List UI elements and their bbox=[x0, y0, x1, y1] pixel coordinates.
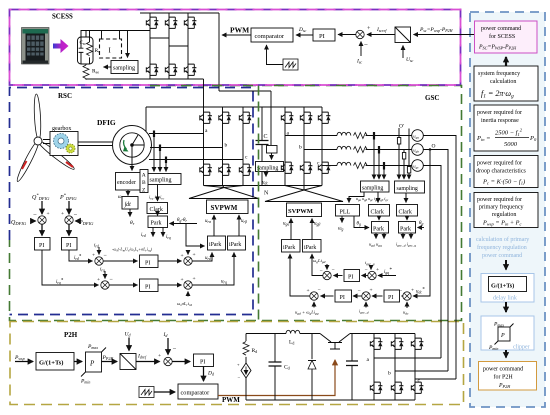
arrow out of sampling bbox=[104, 66, 112, 68]
svg-text:Usc: Usc bbox=[406, 57, 414, 63]
ABZ box bbox=[140, 170, 148, 193]
svg-text:SVPWM: SVPWM bbox=[211, 204, 238, 212]
RSC converter legs bbox=[204, 107, 244, 186]
svg-text:PWM: PWM bbox=[230, 26, 249, 35]
wire: QDFIG into sum bbox=[31, 220, 36, 222]
wire: Pwsp in bbox=[15, 361, 33, 363]
wire: PI to comparator bbox=[296, 34, 313, 36]
PI box (P2H) bbox=[194, 354, 214, 367]
sum junction (SCESS) bbox=[356, 30, 364, 38]
svg-text:DFIG: DFIG bbox=[97, 118, 116, 127]
IGBT S6 bbox=[184, 64, 196, 75]
wire: stack stubs bbox=[102, 31, 120, 40]
svg-text:PWM: PWM bbox=[222, 396, 240, 404]
grid source u_gc bbox=[412, 160, 424, 172]
wire: O bus down / udc* into sum bbox=[413, 151, 430, 296]
svg-text:O: O bbox=[432, 144, 436, 150]
IGBT P2H top c bbox=[411, 338, 423, 349]
svg-text:power command: power command bbox=[481, 26, 521, 32]
svg-text:iPark: iPark bbox=[283, 245, 295, 251]
integrator box bbox=[122, 197, 138, 210]
wire: Park2 outputs bbox=[402, 233, 404, 239]
svg-text:for SCESS: for SCESS bbox=[489, 33, 515, 40]
wire: urq to iPark2 bbox=[192, 253, 234, 286]
wire: gate drive (brown) bbox=[218, 360, 335, 396]
sum PDFIG bbox=[65, 216, 73, 224]
sampling box voltages (GSC) bbox=[395, 181, 425, 193]
svg-text:PI: PI bbox=[145, 285, 150, 291]
svg-text:ird: ird bbox=[141, 233, 146, 238]
svg-text:Csc: Csc bbox=[80, 41, 87, 46]
svg-text:urd: urd bbox=[205, 256, 211, 261]
wire: sum to PI bbox=[338, 34, 356, 36]
wire: supercap top bus bbox=[81, 31, 150, 38]
svg-text:droop characteristics: droop characteristics bbox=[476, 169, 526, 175]
svg-text:Iscref: Iscref bbox=[376, 27, 387, 33]
wire: PI to comparator bbox=[203, 367, 205, 382]
wire: source c to P2H feeder bbox=[423, 166, 441, 359]
P2H bottom rail bbox=[246, 399, 415, 401]
PI box Q bbox=[35, 238, 51, 251]
svg-text:f1 = 2π·ωg: f1 = 2π·ωg bbox=[481, 89, 514, 100]
GSC converter legs bbox=[285, 107, 322, 186]
iPark box 1 (GSC) bbox=[282, 240, 301, 253]
svg-text:comparator: comparator bbox=[181, 390, 211, 397]
current sensor marks on rotor wires bbox=[154, 131, 166, 164]
svg-text:ugd ugq: ugd ugq bbox=[369, 242, 382, 248]
P2H rectifier top rail bbox=[374, 333, 415, 335]
svg-text:Ud: Ud bbox=[125, 332, 132, 338]
svg-text:ird: ird bbox=[94, 244, 99, 249]
RSC dashed border (navy) bbox=[10, 88, 254, 315]
wire: Ud into divider bbox=[128, 338, 130, 351]
G/(1+Ts) box (P2H) bbox=[36, 353, 74, 371]
svg-text:+: + bbox=[193, 276, 196, 282]
wire: Usc up into divider bbox=[402, 46, 404, 59]
svg-text:ugβ: ugβ bbox=[314, 222, 320, 227]
svg-text:Dd: Dd bbox=[207, 371, 215, 377]
wire: Psc command into divider bbox=[414, 34, 475, 36]
sampling box currents (GSC) bbox=[361, 181, 390, 192]
Clark box i bbox=[397, 205, 418, 217]
encoder box bbox=[116, 173, 141, 191]
svg-text:A: A bbox=[142, 173, 146, 179]
svg-text:PI: PI bbox=[340, 295, 345, 301]
IGBT GSC top b bbox=[300, 112, 312, 123]
svg-text:for P2H: for P2H bbox=[494, 374, 514, 381]
wire: Park outputs ird irq bbox=[152, 228, 154, 237]
sum urq bbox=[184, 281, 192, 289]
IGBT RSC top c bbox=[239, 112, 251, 123]
svg-text:−: − bbox=[238, 376, 241, 381]
wire: source a to P2H feeder bbox=[423, 136, 456, 380]
svg-text:udc: udc bbox=[262, 181, 268, 186]
wire: Clark2 to Park2 bbox=[406, 216, 408, 220]
svg-text:θg-θr: θg-θr bbox=[177, 218, 188, 223]
phase wire c with filter bbox=[322, 165, 337, 167]
wire: q chain to iPark2 bbox=[312, 254, 323, 276]
svg-text:RSC: RSC bbox=[58, 92, 72, 100]
IGBT RSC top a bbox=[200, 112, 212, 123]
wire: PLL omega out bbox=[341, 216, 343, 223]
wire: sum udc to PI bbox=[402, 295, 403, 297]
resistor Rse bbox=[83, 65, 89, 79]
wire: comp into urd sum bbox=[187, 252, 189, 255]
PI box d current bbox=[140, 255, 159, 268]
electrolyzer source (diamond) bbox=[241, 363, 251, 378]
resistor Rsp bbox=[87, 42, 93, 56]
magenta arrow bbox=[53, 39, 69, 53]
wire: supercap bottom bus bbox=[86, 78, 204, 80]
wire: divider to sum bbox=[136, 361, 160, 363]
freewheel diode bbox=[311, 334, 313, 401]
svg-text:N: N bbox=[264, 191, 269, 197]
wind turbine blades bbox=[15, 94, 76, 183]
wire: udc fb into sum bbox=[406, 302, 408, 308]
sawtooth generator (P2H) bbox=[139, 387, 154, 398]
Park box u bbox=[372, 222, 389, 234]
svg-text:Clark: Clark bbox=[371, 210, 384, 216]
sawtooth generator (SCESS) bbox=[283, 59, 298, 70]
PI box dc bbox=[384, 290, 400, 302]
PWM gate arrow into bridge bbox=[222, 34, 251, 36]
svg-text:−: − bbox=[399, 288, 402, 294]
wire: PLL theta to Park1 bbox=[354, 216, 369, 228]
DFIG machine bbox=[113, 126, 152, 165]
IGBT P2H bot b bbox=[391, 382, 403, 393]
PI box q (GSC) bbox=[344, 270, 360, 282]
voltage sense drops / O-prime bus bbox=[398, 128, 400, 179]
buck transistor Q bbox=[320, 334, 350, 350]
DC rail top (RSC+GSC) bbox=[146, 106, 322, 108]
rotor phase wire c bbox=[149, 159, 243, 161]
svg-text:clipper: clipper bbox=[513, 345, 530, 351]
wire: sensor to sampling bbox=[271, 153, 273, 160]
wire: Psum to PI bbox=[68, 225, 70, 236]
SVPWM box (RSC) bbox=[207, 200, 249, 214]
svg-text:G/(1+Ts): G/(1+Ts) bbox=[39, 360, 63, 367]
wire: rotor current sense drops bbox=[153, 134, 155, 172]
sampling box (RSC) bbox=[148, 174, 182, 185]
svg-text:Park: Park bbox=[151, 221, 162, 227]
arrow up to SCESS command bbox=[505, 57, 507, 66]
SCESS dashed border (violet) bbox=[10, 10, 461, 86]
dc voltage sensor box bbox=[267, 146, 278, 154]
phase wire a with filter bbox=[285, 135, 337, 137]
svg-text:b: b bbox=[299, 145, 302, 151]
svg-text:inertia response: inertia response bbox=[481, 118, 519, 124]
shaft: gearbox to DFIG bbox=[78, 142, 113, 146]
wire: sawtooth to comparator bbox=[267, 45, 284, 65]
svg-text:Park: Park bbox=[400, 227, 411, 233]
wire: PI to urq sum bbox=[158, 284, 182, 286]
IGBT RSC top b bbox=[219, 112, 231, 123]
sum udc bbox=[403, 292, 411, 300]
wire: divider to sum bbox=[367, 34, 395, 36]
IGBT GSC bot b bbox=[300, 162, 312, 173]
svg-text:power required for: power required for bbox=[477, 160, 522, 167]
comparator box (P2H) bbox=[178, 384, 218, 399]
IGBT P2H top a bbox=[370, 338, 382, 349]
current sensors on phases bbox=[374, 132, 384, 170]
svg-text:power command: power command bbox=[482, 253, 522, 259]
clipper outer box bbox=[481, 316, 534, 350]
svg-text:+: + bbox=[181, 277, 184, 283]
wire: machine to encoder bbox=[131, 158, 133, 171]
node O bbox=[429, 148, 432, 151]
wire: PI to urd sum bbox=[158, 260, 182, 262]
svg-text:sampling: sampling bbox=[397, 186, 418, 192]
wire: sampling to PLL bbox=[349, 192, 364, 203]
svg-text:+: + bbox=[181, 253, 184, 259]
phase wire b with filter bbox=[304, 149, 337, 151]
wire: comp into urq sum bbox=[187, 292, 189, 297]
grid source u_gb bbox=[412, 144, 424, 156]
svg-text:iPark: iPark bbox=[229, 242, 241, 248]
gearbox bbox=[50, 132, 78, 156]
svg-text:Pwsp = Pin + Pc: Pwsp = Pin + Pc bbox=[482, 220, 521, 227]
wire: iPark1 up to SVPWM bbox=[213, 215, 215, 236]
wire: theta g into Park2 bbox=[418, 227, 425, 229]
svg-text:ugb: ugb bbox=[413, 148, 419, 154]
svg-text:−: − bbox=[74, 212, 78, 219]
svg-text:Pin =: Pin = bbox=[476, 135, 491, 142]
svg-text:−: − bbox=[33, 212, 37, 219]
gate fan trapezoid (GSC) bbox=[265, 186, 343, 202]
wire: stator to grid rail bbox=[145, 107, 147, 131]
wire: encoder out bbox=[127, 190, 129, 196]
divider box (SCESS) bbox=[395, 27, 411, 43]
Clark box u bbox=[369, 205, 390, 217]
svg-text:igsc_d igsc_q: igsc_d igsc_q bbox=[396, 242, 416, 248]
wire: feeder to bridge tap b bbox=[395, 370, 448, 372]
wire: Id into sum bbox=[167, 338, 169, 355]
svg-text:P2H: P2H bbox=[64, 331, 78, 339]
wire: iPark2 to SVPWM bbox=[311, 219, 313, 240]
sum urd bbox=[184, 257, 192, 265]
svg-text:PP2H: PP2H bbox=[102, 355, 115, 361]
IGBT GSC top c bbox=[318, 112, 330, 123]
wire: Isc feedback up into sum bbox=[360, 42, 362, 57]
wire: Clark1 to Park1 bbox=[378, 216, 380, 220]
svg-text:power required for: power required for bbox=[477, 109, 522, 116]
wire: feeder to bridge tap a bbox=[374, 357, 441, 359]
wire: PI to sum bbox=[334, 275, 343, 277]
svg-text:P0: P0 bbox=[529, 135, 537, 142]
svg-text:ωgLigd: ωgLigd bbox=[313, 258, 326, 264]
SCESS converter top rail bbox=[140, 12, 219, 14]
wire: sum to PI q bbox=[109, 284, 137, 286]
svg-text:sampling: sampling bbox=[257, 166, 278, 172]
comparator box (SCESS) bbox=[251, 28, 293, 42]
svg-text:Rse: Rse bbox=[92, 69, 99, 75]
svg-text:GSC: GSC bbox=[425, 94, 439, 102]
wire: source b to P2H feeder bbox=[423, 150, 448, 372]
wire: PDFIG into sum bbox=[76, 220, 80, 222]
capacitor Cd bbox=[274, 334, 276, 401]
wire: igsc_d into sum bbox=[365, 302, 367, 308]
wire: sampling to Clark1 bbox=[377, 192, 379, 203]
svg-text:∫dt: ∫dt bbox=[124, 201, 132, 208]
svg-text:Pwsp: Pwsp bbox=[14, 355, 25, 361]
droop characteristics box bbox=[474, 156, 538, 188]
svg-text:Cd: Cd bbox=[284, 365, 290, 371]
svg-text:urq: urq bbox=[221, 280, 227, 285]
IGBT S5 bbox=[165, 64, 177, 75]
svg-text:−: − bbox=[320, 268, 323, 274]
wire: sampling2 to Clark2 bbox=[405, 193, 407, 203]
svg-text:+: + bbox=[92, 253, 95, 259]
svg-text:B: B bbox=[142, 180, 146, 186]
wire: sum to PI bbox=[172, 361, 190, 363]
wire: G to limiter bbox=[74, 361, 82, 363]
sum QDFIG bbox=[38, 216, 46, 224]
arrow down to P2H command bbox=[505, 350, 507, 358]
power command for SCESS box bbox=[475, 21, 538, 53]
rotor phase wire a bbox=[149, 133, 204, 135]
sum Id bbox=[164, 357, 172, 365]
svg-text:calculation: calculation bbox=[490, 79, 516, 85]
svg-text:Dsc: Dsc bbox=[298, 27, 307, 33]
svg-text:comparator: comparator bbox=[255, 33, 285, 40]
voltage sensor boxes bbox=[397, 138, 400, 145]
svg-text:Idref: Idref bbox=[137, 354, 147, 360]
svg-text:Pmin: Pmin bbox=[80, 379, 90, 385]
power command for P2H box bbox=[479, 362, 537, 391]
svg-text:PSC=PWSP-PP2H: PSC=PWSP-PP2H bbox=[478, 45, 517, 51]
IGBT GSC bot a bbox=[281, 162, 293, 173]
arrow down to delay link bbox=[505, 260, 507, 270]
electrolyzer top wire bbox=[246, 333, 286, 335]
wire: sum to PI d bbox=[103, 260, 137, 262]
resistor Rd bbox=[245, 334, 247, 342]
divider box (P2H) bbox=[120, 354, 136, 370]
leg interconnects bbox=[150, 38, 188, 46]
svg-text:ugα ugβ ugc igα igβ igc: ugα ugβ ugc igα igβ igc bbox=[356, 196, 389, 202]
svg-text:PI: PI bbox=[319, 33, 325, 40]
wire: theta g - theta r into Park bbox=[170, 223, 198, 225]
svg-text:θg: θg bbox=[419, 221, 423, 226]
wire: Qsum to PI bbox=[41, 225, 43, 236]
svg-text:SCESS: SCESS bbox=[52, 14, 73, 21]
wire: comp label into sum bbox=[313, 302, 315, 308]
svg-text:PI: PI bbox=[348, 275, 353, 281]
wire: PI d to sum bbox=[321, 295, 334, 297]
wire: source to bottom rail bbox=[245, 378, 247, 400]
svg-text:ira irb irc: ira irb irc bbox=[149, 195, 165, 201]
IGBT GSC bot c bbox=[318, 162, 330, 173]
shaft hub to gearbox bbox=[43, 140, 50, 144]
wire: PI Q out to irq* sum bbox=[42, 250, 99, 285]
svg-text:PI: PI bbox=[145, 261, 150, 267]
wire: urd to iPark bbox=[192, 253, 212, 262]
svg-text:PI: PI bbox=[39, 243, 44, 249]
iPark box 1 (RSC) bbox=[208, 236, 226, 250]
IGBT S1 bbox=[146, 17, 158, 28]
rectifier legs bbox=[374, 334, 415, 401]
svg-text:5000: 5000 bbox=[504, 141, 518, 148]
svg-text:power required for: power required for bbox=[477, 196, 522, 203]
svg-text:+: + bbox=[376, 267, 379, 273]
IGBT RSC bot b bbox=[219, 164, 231, 175]
PI box P bbox=[62, 238, 78, 251]
rotor phase wire b bbox=[150, 147, 223, 149]
PI box q current bbox=[140, 279, 159, 292]
svg-text:irq: irq bbox=[100, 268, 105, 273]
svg-text:SVPWM: SVPWM bbox=[288, 208, 313, 215]
svg-text:sampling: sampling bbox=[113, 66, 135, 72]
IGBT RSC bot a bbox=[200, 164, 212, 175]
svg-text:irq: irq bbox=[166, 235, 171, 240]
svg-text:Pmax: Pmax bbox=[87, 344, 98, 350]
inductor Ld bbox=[286, 330, 300, 333]
wire: ird feedback stub bbox=[98, 247, 100, 255]
svg-text:Isc: Isc bbox=[356, 59, 362, 65]
svg-text:iPark: iPark bbox=[304, 245, 316, 251]
wire: igsc_q into sum bbox=[370, 265, 372, 270]
sum q compensation bbox=[323, 271, 331, 279]
svg-text:sampling: sampling bbox=[362, 186, 383, 192]
wire: DC+ link down to converter bbox=[219, 13, 271, 145]
svg-text:igsc_q: igsc_q bbox=[365, 260, 375, 266]
svg-text:−: − bbox=[358, 288, 361, 294]
sampling box (SCESS) bbox=[111, 61, 138, 74]
svg-text:power command: power command bbox=[483, 367, 523, 373]
GSC dashed border (green) bbox=[10, 86, 462, 321]
wire: PI dc to sum bbox=[372, 295, 383, 297]
wire: sum igd to PI bbox=[353, 295, 362, 297]
section background: right column panel bbox=[470, 12, 545, 407]
gate fan trapezoid (RSC) bbox=[189, 186, 259, 199]
svg-text:Rd: Rd bbox=[252, 348, 258, 354]
delay link outer box bbox=[481, 274, 534, 303]
svg-text:+: + bbox=[411, 288, 414, 294]
IGBT P2H bot c bbox=[411, 382, 423, 393]
wire: Park1 outputs bbox=[375, 233, 377, 239]
IGBT GSC top a bbox=[281, 112, 293, 123]
wire: comp into sum q1 bbox=[326, 264, 328, 270]
svg-text:Clark: Clark bbox=[150, 207, 163, 213]
P2H dc filter capacitor bbox=[351, 334, 353, 401]
IGBT S2 bbox=[165, 17, 177, 28]
system frequency calculation box bbox=[474, 66, 538, 101]
wire: feeder to bridge tap c bbox=[415, 378, 456, 380]
svg-text:−: − bbox=[318, 288, 321, 294]
wire: Clark to Park bbox=[157, 214, 159, 216]
svg-text:+: + bbox=[370, 288, 373, 294]
svg-text:b: b bbox=[225, 143, 228, 149]
DC rail bottom bbox=[204, 185, 323, 187]
P2H dashed border (olive) bbox=[10, 322, 464, 405]
PI box d (GSC) bbox=[335, 290, 352, 302]
svg-text:ωsσLrird: ωsσLrird bbox=[177, 301, 192, 307]
svg-text:−: − bbox=[365, 267, 368, 273]
svg-text:−: − bbox=[332, 267, 335, 273]
wire: igq* into sum bbox=[378, 275, 396, 277]
iPark box 2 (RSC) bbox=[228, 236, 246, 250]
svg-text:regulation: regulation bbox=[492, 212, 516, 218]
svg-text:Clark: Clark bbox=[399, 210, 412, 216]
IGBT S4 bbox=[146, 64, 158, 75]
svg-text:Psc=Pwsp-PP2H: Psc=Pwsp-PP2H bbox=[419, 27, 454, 33]
wire: iPark1 to SVPWM bbox=[290, 219, 292, 240]
svg-text:+: + bbox=[47, 211, 50, 217]
grid source u_ga bbox=[412, 130, 424, 142]
svg-text:b: b bbox=[388, 371, 391, 377]
svg-text:sampling: sampling bbox=[150, 178, 172, 184]
sum igq bbox=[368, 271, 376, 279]
svg-text:O′: O′ bbox=[399, 124, 404, 130]
